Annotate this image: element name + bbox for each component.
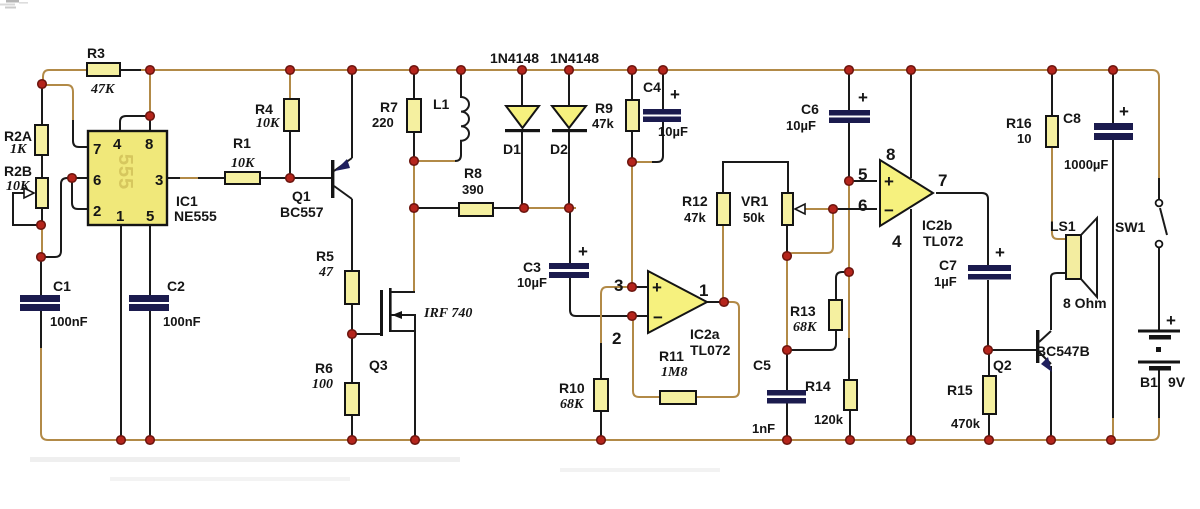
- resistor R2B with wiper arrow: [4, 163, 48, 208]
- svg-text:47K: 47K: [90, 82, 116, 97]
- wire rail to C6: [848, 73, 850, 110]
- wire C4 to junction: [652, 121, 663, 162]
- wire switch to battery: [1158, 248, 1160, 330]
- svg-text:1µF: 1µF: [934, 274, 957, 289]
- op-amp IC2b TL072: [858, 145, 964, 251]
- wire pin6 node down to 555 pin 2: [72, 181, 88, 209]
- wire gate junction to Q3 gate: [356, 333, 380, 335]
- svg-text:R8: R8: [464, 165, 482, 181]
- wire IC2a + input stub: [636, 286, 648, 288]
- svg-text:68K: 68K: [793, 320, 818, 335]
- inductor L1: [433, 72, 469, 161]
- svg-text:1N4148: 1N4148: [550, 50, 599, 66]
- svg-text:R12: R12: [682, 193, 708, 209]
- wire Q1 emitter to top rail: [351, 73, 353, 158]
- switch SW1: [1115, 200, 1167, 248]
- resistor R1: [225, 135, 260, 184]
- svg-text:Q1: Q1: [292, 188, 311, 204]
- junction rail R9: [628, 66, 637, 75]
- svg-text:R4: R4: [255, 101, 273, 117]
- wire 555 pin 4 arm: [120, 116, 148, 131]
- wire R16 down to speaker top: [1052, 147, 1066, 239]
- svg-text:100nF: 100nF: [163, 314, 201, 329]
- wire R2A to R2B: [41, 155, 43, 178]
- capacitor C4: [643, 79, 688, 139]
- svg-text:+: +: [1119, 102, 1129, 121]
- junction ground 555 pin1: [117, 436, 126, 445]
- svg-text:7: 7: [938, 171, 947, 190]
- wire VR1 wiper to pin 6 node: [805, 208, 830, 210]
- junction 555 pins 4 8: [146, 112, 155, 121]
- junction ground R6: [348, 436, 357, 445]
- junction ground Q3 source: [411, 436, 420, 445]
- wire IC2a - input stub: [636, 315, 648, 317]
- svg-text:R1: R1: [233, 135, 251, 151]
- junction C7 R15 Q2 base: [984, 346, 993, 355]
- wire junction column to R8 junction: [413, 164, 415, 205]
- capacitor C1: [20, 278, 88, 329]
- wire gate junction to R6: [351, 337, 353, 383]
- svg-text:10K: 10K: [231, 156, 256, 171]
- wire rail to R9: [631, 73, 633, 100]
- svg-text:IC2b: IC2b: [922, 217, 952, 233]
- svg-text:3: 3: [155, 172, 163, 189]
- svg-text:TL072: TL072: [690, 342, 731, 358]
- wire node A down to R2A: [41, 87, 43, 125]
- junction R1 R4 Q1 base: [286, 174, 295, 183]
- capacitor C6: [786, 88, 870, 133]
- svg-text:47k: 47k: [684, 210, 706, 225]
- resistor R10: [559, 379, 608, 412]
- battery B1 9V: [1138, 311, 1186, 390]
- junction C5 R13 node: [783, 346, 792, 355]
- wire C6 to IC2b pin 5: [848, 122, 850, 178]
- junction 555 pin6 node: [68, 174, 77, 183]
- wire Q1 collector to R5: [351, 199, 353, 271]
- svg-text:C1: C1: [53, 278, 71, 294]
- junction R9 C4: [628, 158, 637, 167]
- junction rail IC2b pin8: [907, 66, 916, 75]
- svg-text:R7: R7: [380, 99, 398, 115]
- wire rail to 555 pins 4 and 8: [149, 73, 151, 113]
- wire R14 upper lead: [848, 338, 850, 380]
- svg-text:R10: R10: [559, 380, 585, 396]
- wire VR1 junction down to C5 junction: [786, 259, 788, 346]
- junction IC2a pin2 node: [628, 312, 637, 321]
- resistor R2A: [4, 125, 48, 157]
- wire R6 to ground rail: [351, 415, 353, 437]
- wire rail to C4: [662, 73, 664, 109]
- svg-text:10µF: 10µF: [786, 118, 816, 133]
- wire C5 to ground rail: [786, 403, 788, 437]
- svg-text:7: 7: [93, 141, 101, 158]
- svg-text:555: 555: [114, 154, 136, 190]
- svg-text:+: +: [578, 242, 588, 261]
- svg-text:NE555: NE555: [174, 208, 217, 224]
- svg-text:R11: R11: [659, 348, 684, 364]
- resistor R5: [316, 248, 359, 304]
- wire rail to C8: [1112, 73, 1114, 123]
- junction rail D2: [565, 66, 574, 75]
- wire R8 leads: [417, 207, 521, 209]
- svg-text:D2: D2: [550, 141, 568, 157]
- junction rail L1: [457, 66, 466, 75]
- wire R15 to ground rail: [988, 414, 990, 437]
- junction IC2b pin5 C6: [845, 177, 854, 186]
- svg-text:L1: L1: [433, 96, 450, 112]
- resistor R7: [372, 99, 421, 132]
- wire C5 junction to C5: [786, 353, 788, 390]
- capacitor C3: [517, 242, 589, 290]
- svg-text:1K: 1K: [10, 142, 28, 157]
- capacitor C7: [934, 243, 1011, 289]
- svg-text:+: +: [1166, 311, 1176, 330]
- svg-text:1000µF: 1000µF: [1064, 157, 1108, 172]
- wire junction to 555 pin 6: [45, 178, 88, 257]
- wire R3 left arm to node A: [43, 70, 88, 82]
- junction wiper pin6 node: [829, 205, 838, 214]
- junction rail C6: [845, 66, 854, 75]
- junction ground R14: [846, 436, 855, 445]
- junction C1 top: [37, 253, 46, 262]
- junction ground R15: [985, 436, 994, 445]
- svg-text:R5: R5: [316, 248, 334, 264]
- svg-text:C3: C3: [523, 259, 541, 275]
- svg-text:+: +: [652, 278, 662, 297]
- wire bottom ground rail: [41, 344, 1159, 440]
- svg-text:10: 10: [1017, 131, 1031, 146]
- junction rail R16: [1048, 66, 1057, 75]
- svg-text:C5: C5: [753, 357, 771, 373]
- wire R13 top lead to pin5 column: [836, 272, 846, 300]
- svg-text:C8: C8: [1063, 110, 1081, 126]
- junction D2 C3: [565, 204, 574, 213]
- svg-text:1: 1: [116, 208, 124, 225]
- wire IC2b output to C7: [936, 193, 988, 265]
- wire R2B wiper return loop: [13, 193, 37, 225]
- wire D1 cathode down: [521, 132, 523, 205]
- svg-text:100: 100: [312, 377, 333, 392]
- diode D2 1N4148: [550, 50, 599, 157]
- svg-text:C6: C6: [801, 101, 819, 117]
- junction R13 R14 node: [845, 268, 854, 277]
- svg-text:R13: R13: [790, 303, 816, 319]
- svg-text:+: +: [858, 88, 868, 107]
- resistor R14: [805, 378, 857, 427]
- svg-text:R14: R14: [805, 378, 831, 394]
- wire R11 to output node: [696, 302, 739, 397]
- svg-text:C2: C2: [167, 278, 185, 294]
- svg-text:1: 1: [699, 281, 708, 300]
- wire R9 to C4 junction: [631, 131, 633, 158]
- wire R7 to L1 junction: [413, 132, 415, 158]
- svg-text:−: −: [653, 308, 663, 327]
- resistor R6: [312, 360, 359, 415]
- wire 555 pin 3 to R1: [167, 177, 180, 179]
- junction R7 L1: [410, 157, 419, 166]
- svg-text:SW1: SW1: [1115, 219, 1146, 235]
- IC U1 555 timer: [88, 131, 217, 225]
- svg-text:5: 5: [146, 208, 154, 225]
- svg-text:470k: 470k: [951, 416, 981, 431]
- junction R8 drain column: [410, 204, 419, 213]
- wire D2 junction to C3: [569, 211, 571, 263]
- transistor Q1 BC557: [280, 158, 352, 220]
- wire R2B to wiper junction: [41, 208, 43, 223]
- junction ground Q2 emitter: [1047, 436, 1056, 445]
- junction R5 R6 Q3 gate: [348, 330, 357, 339]
- svg-text:C7: C7: [939, 257, 957, 273]
- resistor R8: [459, 165, 493, 216]
- svg-text:Q2: Q2: [993, 357, 1012, 373]
- wire wiper junction to pin6 junction: [41, 228, 43, 254]
- junction ground C2: [146, 436, 155, 445]
- wire R13 bottom lead to C5 junction: [790, 330, 836, 350]
- capacitor C2: [129, 278, 201, 329]
- wire R4 to base junction: [289, 131, 291, 175]
- junction rail R7: [410, 66, 419, 75]
- wire pin7 lower segment: [73, 120, 88, 147]
- transistor Q2 BC547B: [993, 330, 1090, 373]
- wire IC2b pin 5 stub: [852, 180, 877, 182]
- svg-text:9V: 9V: [1168, 374, 1186, 390]
- svg-text:R16: R16: [1006, 115, 1032, 131]
- wire IC2a output stub: [707, 301, 721, 303]
- wire R3 right lead: [120, 69, 141, 71]
- wire D2 cathode down: [568, 132, 570, 205]
- wire C2 to ground rail: [149, 311, 151, 437]
- svg-text:R6: R6: [315, 360, 333, 376]
- resistor R15: [947, 376, 996, 431]
- junction VR1 bottom: [783, 252, 792, 261]
- wire base junction to Q1 base: [293, 177, 331, 179]
- junction ground IC2b pin4: [907, 436, 916, 445]
- svg-text:+: +: [995, 243, 1005, 262]
- wire R8 junction down to Q3 drain: [413, 211, 415, 292]
- svg-text:BC547B: BC547B: [1036, 343, 1090, 359]
- resistor R9: [592, 100, 639, 131]
- wire C3 to IC2a pin 2: [570, 278, 628, 316]
- svg-text:R2B: R2B: [4, 163, 32, 179]
- wire 555 pin 8 stub: [149, 116, 151, 131]
- wire R5 to gate junction: [351, 304, 353, 331]
- svg-text:10K: 10K: [256, 116, 281, 131]
- junction rail C4: [659, 66, 668, 75]
- wire pin3 node to R10: [601, 287, 628, 345]
- svg-text:IC1: IC1: [176, 193, 198, 209]
- junction D1 cathode: [520, 204, 529, 213]
- speaker LS1: [1050, 218, 1107, 311]
- junction rail x150: [146, 66, 155, 75]
- svg-text:C4: C4: [643, 79, 661, 95]
- svg-text:LS1: LS1: [1050, 218, 1076, 234]
- wire speaker bottom to Q2 collector: [1051, 273, 1066, 330]
- wire rail to R16: [1051, 73, 1053, 116]
- svg-text:1M8: 1M8: [661, 365, 687, 380]
- wire pin2 node down to R11: [633, 320, 660, 397]
- svg-text:8: 8: [145, 136, 153, 153]
- svg-text:IRF 740: IRF 740: [423, 306, 472, 321]
- wire C8 to ground rail: [1112, 140, 1114, 420]
- svg-text:4: 4: [892, 232, 902, 251]
- svg-text:+: +: [670, 85, 680, 104]
- wire R14 to ground rail: [849, 410, 851, 437]
- wire switch upper lead: [1158, 178, 1160, 200]
- wire rail to D2: [568, 73, 570, 106]
- wire output node up to R12: [722, 225, 724, 298]
- svg-text:68K: 68K: [560, 397, 585, 412]
- svg-text:3: 3: [614, 276, 623, 295]
- wire L1 bottom arm: [417, 160, 455, 162]
- svg-text:47: 47: [318, 265, 334, 280]
- svg-text:TL072: TL072: [923, 233, 964, 249]
- junction ground R10: [597, 436, 606, 445]
- wire R10 to ground rail: [600, 411, 602, 437]
- junction node A R3 R2A pin7: [38, 80, 47, 89]
- svg-text:R9: R9: [595, 100, 613, 116]
- diode D1 1N4148: [490, 50, 540, 157]
- junction rail R4: [286, 66, 295, 75]
- svg-text:2: 2: [612, 329, 621, 348]
- svg-text:10µF: 10µF: [517, 275, 547, 290]
- svg-text:47k: 47k: [592, 116, 614, 131]
- wire IC2b pin 4 to ground: [910, 209, 912, 437]
- wire VR1 bottom lead: [786, 225, 788, 253]
- svg-text:1nF: 1nF: [752, 421, 775, 436]
- junction IC2a output node: [720, 298, 729, 307]
- resistor R16: [1006, 115, 1058, 147]
- resistor R4: [255, 99, 299, 131]
- svg-text:IC2a: IC2a: [690, 326, 720, 342]
- wire IC2b pin 6 stub: [836, 208, 877, 210]
- svg-text:D1: D1: [503, 141, 521, 157]
- wire base junction to R15: [988, 353, 990, 376]
- svg-text:4: 4: [113, 136, 122, 153]
- svg-text:6: 6: [93, 172, 101, 189]
- resistor R13: [790, 300, 842, 335]
- potentiometer VR1 with wiper arrow: [741, 193, 805, 225]
- wire R10 upper lead: [600, 343, 602, 379]
- wire pin5 node down to R13 junction: [848, 184, 850, 269]
- svg-text:6: 6: [858, 196, 867, 215]
- svg-text:VR1: VR1: [741, 193, 768, 209]
- resistor R3: [87, 45, 120, 97]
- wire base junction to Q2: [991, 349, 1036, 351]
- op-amp IC2a TL072: [612, 271, 731, 358]
- svg-text:50k: 50k: [743, 210, 765, 225]
- svg-text:8 Ohm: 8 Ohm: [1063, 295, 1107, 311]
- wire top supply rail: [120, 70, 1159, 181]
- junction ground C8: [1107, 436, 1116, 445]
- junction rail Q1 emitter: [348, 66, 357, 75]
- wire C4 junction down to IC2a pin 3: [631, 166, 633, 283]
- capacitor C5: [752, 357, 806, 436]
- wire junction down to C1: [40, 260, 42, 295]
- wire rail to R4: [289, 73, 291, 99]
- svg-text:+: +: [884, 172, 894, 191]
- junction rail C8: [1109, 66, 1118, 75]
- svg-text:120k: 120k: [814, 412, 844, 427]
- svg-text:Q3: Q3: [369, 357, 388, 373]
- wire rail to R7: [413, 73, 415, 99]
- junction ground C5: [783, 436, 792, 445]
- junction rail D1: [518, 66, 527, 75]
- wire 555 pin 1 to ground: [120, 225, 122, 437]
- svg-text:R15: R15: [947, 382, 973, 398]
- resistor R11: [659, 348, 696, 404]
- svg-text:220: 220: [372, 115, 394, 130]
- svg-text:10µF: 10µF: [658, 124, 688, 139]
- svg-text:R3: R3: [87, 45, 105, 61]
- capacitor C8: [1063, 102, 1133, 172]
- wire 555 pin 5 to C2: [149, 225, 151, 295]
- wire C7 to Q2 base junction: [987, 280, 989, 347]
- svg-text:B1: B1: [1140, 374, 1158, 390]
- wire R8 to D1 D2 junctions: [527, 207, 576, 209]
- wire R12 VR1 top bridge: [723, 162, 788, 193]
- svg-text:390: 390: [462, 182, 484, 197]
- wire R1 to Q1 base junction: [260, 177, 287, 179]
- wire battery to ground rail: [1158, 370, 1160, 418]
- svg-text:2: 2: [93, 203, 101, 220]
- wire R3 left lead: [56, 69, 88, 71]
- wire pin6 node loop down to VR1 bottom junction: [787, 212, 833, 256]
- transistor Q3 IRF740 mosfet: [369, 288, 472, 437]
- svg-text:1N4148: 1N4148: [490, 50, 539, 66]
- wire rail to D1: [521, 73, 523, 106]
- junction IC2a pin3 node: [628, 283, 637, 292]
- wire node A to 555 pin 7: [45, 85, 73, 122]
- svg-text:−: −: [884, 201, 894, 220]
- junction R2B wiper: [37, 221, 46, 230]
- wire R13 junction down to R14: [848, 275, 850, 340]
- wire Q2 emitter to ground rail: [1050, 366, 1052, 437]
- svg-text:5: 5: [858, 165, 867, 184]
- svg-text:8: 8: [886, 145, 895, 164]
- svg-text:100nF: 100nF: [50, 314, 88, 329]
- svg-text:BC557: BC557: [280, 204, 324, 220]
- wire IC2b pin 8 to rail: [910, 73, 912, 178]
- resistor R12: [682, 193, 730, 225]
- wire C1 to ground rail: [40, 311, 42, 348]
